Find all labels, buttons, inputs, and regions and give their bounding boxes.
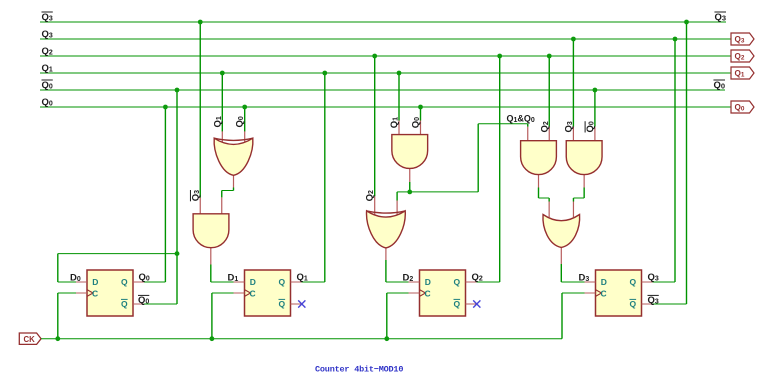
wire CK bus bbox=[41, 338, 562, 340]
input label Q3 at AND4 bbox=[563, 121, 574, 132]
wire OR1 right input drop bbox=[572, 198, 574, 202]
wire Q1&Q0 run bbox=[410, 191, 478, 193]
wire FF4 clock bbox=[562, 292, 585, 294]
wire nQ3 output bbox=[653, 303, 687, 305]
wire Q2 output bbox=[477, 281, 500, 283]
svg-text:Q: Q bbox=[121, 277, 128, 287]
wire Q1 tap to AND2 bbox=[398, 73, 400, 121]
input label Q0 at AND2 bbox=[411, 117, 422, 128]
svg-text:Q: Q bbox=[454, 299, 461, 309]
wire D1 input bbox=[211, 281, 234, 283]
wire AND2 out to XOR2 jog bbox=[397, 191, 410, 193]
svg-text:Counter 4bit−MOD10: Counter 4bit−MOD10 bbox=[315, 365, 403, 375]
wire D2 input bbox=[386, 281, 409, 283]
connector CK input bbox=[19, 333, 41, 344]
AND2 input pins bbox=[398, 121, 400, 135]
wire AND2 out drop bbox=[409, 182, 411, 192]
wire nQ3 tap to AND1 bbox=[199, 22, 201, 198]
wire nQ0 feedback to D0 bbox=[58, 253, 177, 255]
XOR2 input pins bbox=[374, 196, 376, 215]
wire bus Q2 bbox=[40, 55, 731, 57]
wire Q0 riser to bus bbox=[164, 107, 166, 282]
svg-text:Q: Q bbox=[279, 299, 286, 309]
junction CK/FF2 bbox=[210, 336, 215, 341]
AND3 input pins bbox=[527, 127, 529, 141]
wire bus Q1 bbox=[40, 72, 731, 74]
junction Q2/XOR2 bbox=[372, 54, 377, 59]
junction Q0/AND2 bbox=[418, 105, 423, 110]
and gate AND4 (Q3 and nQ0) bbox=[566, 141, 602, 175]
junction nQ0/FF1 bbox=[175, 88, 180, 93]
wire Q2 riser to bus bbox=[499, 56, 501, 282]
connector Q0 output bbox=[731, 101, 754, 113]
OR1 input pins bbox=[548, 202, 550, 218]
AND2 output pin bbox=[409, 169, 411, 182]
junction Q0/FF1 bbox=[163, 105, 168, 110]
flip-flop FF2 (bit1) (D flip-flop) bbox=[234, 270, 302, 316]
AND4 input pins bbox=[572, 127, 574, 141]
and gate AND3 (Q1Q0 and Q2) bbox=[521, 141, 557, 175]
wire XOR1 out drop bbox=[221, 191, 223, 198]
wire Q1&Q0 drop to AND3 bbox=[527, 124, 529, 127]
svg-text:Q3: Q3 bbox=[714, 12, 726, 23]
or gate OR1 -> D3 bbox=[543, 215, 580, 248]
wire bus nQ0 bbox=[40, 89, 725, 91]
OR1 output pin bbox=[560, 247, 562, 264]
junction nQ3/AND1 bbox=[198, 20, 203, 25]
AND1 input pins bbox=[199, 198, 201, 214]
wire nQ0 output bbox=[144, 303, 177, 305]
junction AND2 out node bbox=[407, 190, 412, 195]
connector Q3 output bbox=[731, 33, 754, 45]
AND1 output pin bbox=[210, 248, 212, 265]
wire OR1 left input drop bbox=[548, 198, 550, 202]
AND3 output pin bbox=[538, 175, 540, 188]
wire XOR2 right input drop bbox=[396, 192, 398, 201]
svg-text:Q: Q bbox=[454, 277, 461, 287]
junction Q2/FF3 bbox=[497, 54, 502, 59]
svg-text:C: C bbox=[425, 288, 431, 298]
wire D3 input bbox=[561, 281, 584, 283]
input label Q1 at XOR1 bbox=[212, 116, 223, 127]
wire nQ3 riser to bus bbox=[686, 22, 688, 304]
wire FF2 clock drop bbox=[211, 293, 213, 339]
XOR1 input pins bbox=[221, 131, 223, 142]
wire bus Q0 bbox=[40, 106, 731, 108]
AND4 output pin bbox=[583, 175, 585, 188]
wire Q3 tap to AND4 bbox=[572, 39, 574, 127]
wire Q1 tap to XOR1 bbox=[221, 73, 223, 132]
wire Q1&Q0 riser bbox=[477, 124, 479, 192]
svg-text:D: D bbox=[92, 277, 98, 287]
flip-flop FF1 (bit0) (D flip-flop) bbox=[76, 270, 144, 316]
XOR1 output pin bbox=[233, 175, 235, 187]
svg-text:C: C bbox=[250, 288, 256, 298]
junction nQ3/FF4 bbox=[684, 20, 689, 25]
and gate AND1 (nQ3 and xor) -> D1 bbox=[193, 214, 229, 248]
input label Q1 at AND2 bbox=[389, 117, 400, 128]
input label nQ3 at AND1 bbox=[190, 190, 201, 201]
connector Q2 output bbox=[731, 50, 754, 62]
wire XOR1 out jog bbox=[222, 190, 234, 192]
wire FF1 clock bbox=[58, 292, 76, 294]
wire Q1 riser to bus bbox=[324, 73, 326, 282]
connector Q1 output bbox=[731, 67, 754, 79]
wire Q2 tap to AND3 bbox=[548, 56, 550, 127]
wire FF3 clock bbox=[387, 292, 409, 294]
xor gate XOR1 (Q1 xor Q0) bbox=[214, 138, 253, 175]
junction Q2/AND3 bbox=[547, 54, 552, 59]
wire Q1&Q0 top run bbox=[478, 123, 528, 125]
wire CK to FF4 clock riser bbox=[561, 293, 563, 339]
junction Q1/FF2 bbox=[322, 71, 327, 76]
wire nQ0 riser to bus bbox=[176, 90, 178, 304]
no-connect cross FF2 nQ bbox=[291, 300, 306, 307]
input label Q0 at XOR1 bbox=[235, 116, 246, 127]
wire Q0 tap to XOR1 bbox=[244, 107, 246, 132]
svg-text:Q: Q bbox=[121, 299, 128, 309]
wire XOR1 out stub drop bbox=[233, 188, 235, 191]
xor gate XOR2 (Q2 xor Q1Q0) -> D2 bbox=[367, 211, 406, 248]
wire FF1 clock drop bbox=[57, 293, 59, 339]
svg-text:D: D bbox=[601, 277, 607, 287]
wire feedback drop to D0 bbox=[57, 254, 59, 282]
wire bus nQ3 bbox=[40, 21, 726, 23]
input label nQ0 at AND4 bbox=[585, 121, 596, 132]
wire OR1 out drop bbox=[560, 264, 562, 282]
wire AND4 out drop bbox=[583, 188, 585, 199]
junction Q1/XOR1 bbox=[220, 71, 225, 76]
input label Q2 at XOR2 bbox=[365, 190, 376, 201]
svg-text:D: D bbox=[250, 277, 256, 287]
wire FF3 clock drop bbox=[386, 293, 388, 339]
wire Q2 tap to XOR2 bbox=[374, 56, 376, 196]
wire XOR2 out drop bbox=[385, 260, 387, 282]
wire Q1 output bbox=[302, 281, 325, 283]
wire Q3 riser to bus bbox=[674, 39, 676, 282]
junction Q1/AND2 bbox=[397, 71, 402, 76]
junction Q0/XOR1 bbox=[242, 105, 247, 110]
junction CK/FF1 bbox=[55, 336, 60, 341]
wire FF2 clock bbox=[212, 292, 234, 294]
wire D0 input bbox=[58, 281, 76, 283]
svg-text:Q: Q bbox=[630, 277, 637, 287]
svg-text:Q1&Q0: Q1&Q0 bbox=[507, 114, 535, 125]
wire AND4 to OR1 jog bbox=[573, 197, 584, 199]
svg-text:D: D bbox=[425, 277, 431, 287]
flip-flop FF3 (bit2) (D flip-flop) bbox=[409, 270, 477, 316]
junction nQ0/AND4 bbox=[593, 88, 598, 93]
XOR2 output pin bbox=[385, 248, 387, 260]
svg-text:C: C bbox=[92, 288, 98, 298]
wire AND3 out drop bbox=[538, 188, 540, 199]
svg-text:C: C bbox=[601, 288, 607, 298]
svg-text:Q: Q bbox=[630, 299, 637, 309]
input label Q2 at AND3 bbox=[539, 121, 550, 132]
svg-text:Q: Q bbox=[279, 277, 286, 287]
junction Q3/AND4 bbox=[571, 37, 576, 42]
junction Q3/FF4 bbox=[673, 37, 678, 42]
wire AND3 to OR1 jog bbox=[539, 197, 550, 199]
junction CK/FF3 bbox=[384, 336, 389, 341]
wire nQ0 tap to AND4 bbox=[594, 90, 596, 127]
wire bus Q3 bbox=[40, 38, 731, 40]
and gate AND2 (Q1 and Q0) bbox=[392, 135, 428, 169]
svg-text:CK: CK bbox=[24, 335, 36, 344]
junction nQ0 feedback bbox=[175, 251, 180, 256]
wire Q3 output bbox=[653, 281, 676, 283]
wire Q0 output bbox=[144, 281, 165, 283]
wire Q0 tap to AND2 bbox=[420, 107, 422, 121]
flip-flop FF4 (bit3) (D flip-flop) bbox=[585, 270, 653, 316]
svg-text:Q0: Q0 bbox=[713, 80, 725, 91]
wire AND1 out drop bbox=[210, 265, 212, 283]
no-connect cross FF3 nQ bbox=[466, 300, 481, 307]
